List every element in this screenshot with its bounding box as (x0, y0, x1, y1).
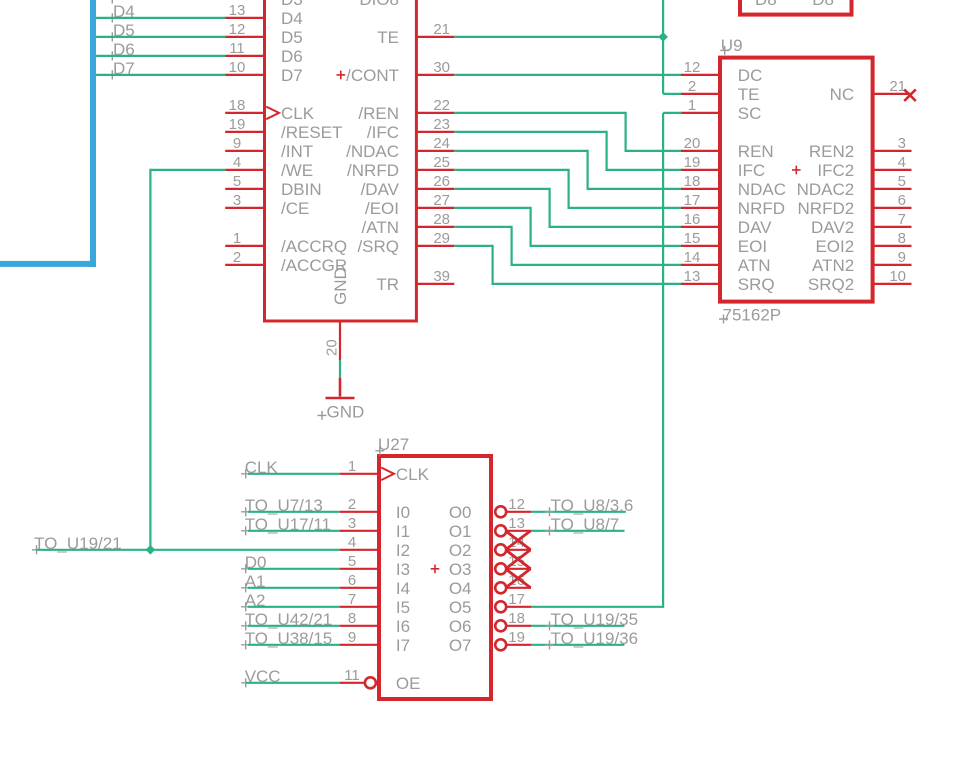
U9 pin 9 (ATN2) stub (874, 264, 912, 266)
svg-text:3: 3 (898, 135, 906, 152)
svg-text:18: 18 (508, 610, 525, 627)
U9 pin 1 (SC) stub (681, 112, 719, 114)
svg-text:OE: OE (396, 674, 421, 693)
svg-text:D6: D6 (113, 40, 135, 59)
svg-text:DAV: DAV (738, 218, 772, 237)
svg-text:I1: I1 (396, 522, 410, 541)
svg-text:TO_U8/7: TO_U8/7 (551, 515, 620, 534)
svg-text:1: 1 (233, 230, 241, 247)
U27 pin 19 (O7) inverting bubble (495, 639, 506, 650)
svg-text:IFC2: IFC2 (817, 161, 854, 180)
U27 pin 16 (O4) stub (507, 587, 532, 589)
svg-text:O6: O6 (449, 617, 472, 636)
U27 pin 7 (I5) stub (340, 606, 379, 608)
U27 pin 18 (O6) inverting bubble (495, 620, 506, 631)
wire net A1 to U27 (248, 587, 340, 589)
label origin cross for net D4 (108, 13, 117, 22)
U27 pin 17 (O5) inverting bubble (495, 601, 506, 612)
svg-text:39: 39 (433, 268, 450, 285)
svg-text:EOI2: EOI2 (815, 237, 854, 256)
svg-text:TE: TE (738, 85, 760, 104)
svg-text:14: 14 (684, 249, 701, 266)
U9 pin 18 (NDAC) stub (681, 188, 719, 190)
U27 pin 13 (O1) inverting bubble (495, 525, 506, 536)
U9 pin 13 (SRQ) stub (681, 283, 719, 285)
ground symbol SUPPLY1 GND (326, 378, 355, 398)
svg-text:/NDAC: /NDAC (346, 142, 399, 161)
wire net REN from U26 (454, 112, 625, 114)
label origin cross for CLK (241, 469, 250, 478)
svg-text:/WE: /WE (281, 161, 313, 180)
svg-text:O3: O3 (449, 560, 472, 579)
svg-text:4: 4 (348, 534, 356, 551)
svg-text:6: 6 (898, 192, 906, 209)
wire net IFC vertical jog (605, 131, 607, 171)
U27 refdes label origin cross (375, 446, 384, 455)
no-connect X mark 2 at U27 outputs (506, 550, 531, 569)
svg-text:/CE: /CE (281, 199, 309, 218)
svg-text:D7: D7 (113, 59, 135, 78)
svg-text:D0: D0 (245, 553, 267, 572)
wire net NDAC from U26 (454, 150, 587, 152)
svg-text:CLK: CLK (281, 104, 315, 123)
svg-text:9: 9 (898, 249, 906, 266)
wire net EOI from U26 (454, 207, 530, 209)
wire net EOI vertical jog (529, 207, 531, 247)
wire net TO_U17/11 to U27 (248, 530, 340, 532)
svg-text:12: 12 (229, 21, 246, 38)
svg-text:/REN: /REN (358, 104, 399, 123)
svg-text:12: 12 (508, 496, 525, 513)
clock wedge on U26 pin 18 CLK (266, 107, 279, 120)
svg-text:SC: SC (738, 104, 762, 123)
U27 pin 18 (O6) stub (507, 625, 532, 627)
svg-text:17: 17 (508, 591, 525, 608)
svg-text:2: 2 (688, 78, 696, 95)
U9 pin 16 (DAV) stub (681, 226, 719, 228)
bus B1 horizontal segment (0, 261, 96, 267)
svg-text:29: 29 (433, 230, 450, 247)
svg-text:ATN2: ATN2 (812, 256, 854, 275)
no-connect X mark 1 at U27 outputs (506, 531, 531, 550)
U26 pin 5 (DBIN) stub (225, 188, 264, 190)
svg-text:NRFD2: NRFD2 (798, 199, 855, 218)
svg-text:ATN: ATN (738, 256, 771, 275)
svg-text:22: 22 (433, 97, 450, 114)
transceiver IC U9 box (720, 58, 873, 302)
U27 pin 15 (O3) stub (507, 568, 532, 570)
U26 pin 3 (/CE) stub (225, 207, 264, 209)
svg-text:2: 2 (233, 249, 241, 266)
wire net EOI into U9 (531, 245, 682, 247)
label origin cross for TO_U19/35 (545, 621, 554, 630)
svg-text:/NRFD: /NRFD (347, 161, 399, 180)
svg-text:TO_U19/35: TO_U19/35 (551, 610, 639, 629)
svg-text:8: 8 (898, 230, 906, 247)
U27 pin 11 (OE) stub (340, 682, 364, 684)
wire net VCC to U27 OE (246, 682, 340, 684)
wire net TO_U19/35 from U27 pin 18 (531, 625, 625, 627)
svg-text:GND: GND (327, 403, 365, 422)
U27 pin 12 (O0) inverting bubble (495, 506, 506, 517)
U26 pin 10 (D7) stub (225, 74, 264, 76)
svg-text:/DAV: /DAV (361, 180, 400, 199)
svg-text:CLK: CLK (245, 458, 279, 477)
wire net IFC from U26 (454, 131, 606, 133)
svg-text:20: 20 (324, 339, 341, 356)
svg-text:28: 28 (433, 211, 450, 228)
svg-text:EOI: EOI (738, 237, 767, 256)
U9 pin 15 (EOI) stub (681, 245, 719, 247)
svg-text:D5: D5 (113, 21, 135, 40)
origin cross of U9 (792, 166, 801, 175)
svg-text:U9: U9 (721, 36, 743, 55)
U26 pin 30 (/CONT) stub (417, 74, 454, 76)
U26 pin 27 (/EOI) stub (417, 207, 454, 209)
U26 pin 25 (/NRFD) stub (417, 169, 454, 171)
U27 pin 14 (O2) inverting bubble (495, 544, 506, 555)
label origin cross for VCC (241, 678, 250, 687)
wire net NRFD into U9 (569, 207, 682, 209)
label origin cross for TO_U42/21 (241, 621, 250, 630)
svg-text:11: 11 (229, 40, 245, 57)
wire net D7 from bus to U26 (96, 74, 225, 76)
svg-text:D8: D8 (812, 0, 834, 9)
svg-text:NDAC: NDAC (738, 180, 786, 199)
svg-text:/IFC: /IFC (367, 123, 399, 142)
U27 pin 17 (O5) stub (507, 606, 532, 608)
no-connect X mark 3 at U27 outputs (506, 569, 531, 588)
U27 pin 6 (I4) stub (340, 587, 379, 589)
wire net TO_U8/3,6 from U27 pin 12 (531, 511, 626, 513)
svg-text:/ACCRQ: /ACCRQ (281, 237, 347, 256)
clipped IC box at top edge (740, 0, 852, 15)
wire net TE from U26 pin 21 (454, 36, 663, 38)
U9 pin 7 (DAV2) stub (874, 226, 912, 228)
U9 pin 6 (NRFD2) stub (874, 207, 912, 209)
wire net SC into U9 pin 1 (663, 112, 681, 114)
U9 pin 8 (EOI2) stub (874, 245, 912, 247)
svg-text:D8: D8 (755, 0, 777, 9)
svg-text:I6: I6 (396, 617, 410, 636)
svg-text:9: 9 (348, 629, 356, 646)
svg-text:11: 11 (344, 667, 360, 684)
svg-text:6: 6 (348, 572, 356, 589)
U27 pin 2 (I0) stub (340, 511, 379, 513)
wire net TO_U19/21 to U27 pin 4 (37, 549, 341, 551)
op IC U26 box (TMS9914 GPIB controller, clipped at top) (265, 0, 417, 321)
svg-text:1: 1 (688, 97, 696, 114)
U26 pin 12 (D5) stub (225, 36, 264, 38)
svg-text:TO_U38/15: TO_U38/15 (245, 629, 333, 648)
U9 pin 14 (ATN) stub (681, 264, 719, 266)
svg-text:O1: O1 (449, 522, 472, 541)
svg-text:O0: O0 (449, 503, 472, 522)
U26 pin 22 (/REN) stub (417, 112, 454, 114)
wire net D6 from bus to U26 (96, 55, 225, 57)
svg-text:26: 26 (433, 173, 450, 190)
label origin cross for TO_U7/13 (241, 507, 250, 516)
U9 pin 3 (REN2) stub (874, 150, 912, 152)
wire net D0 to U27 (248, 568, 340, 570)
wire net /CONT from U26 pin 30 to U9 pin 12 (454, 74, 681, 76)
wire net DAV into U9 (550, 226, 682, 228)
wire net ATN from U26 (454, 226, 511, 228)
svg-text:1: 1 (348, 458, 356, 475)
svg-text:/CONT: /CONT (346, 66, 399, 85)
U26 pin 2 (/ACCGR) stub (225, 264, 264, 266)
svg-text:NC: NC (830, 85, 855, 104)
svg-text:18: 18 (684, 173, 701, 190)
svg-text:17: 17 (684, 192, 701, 209)
svg-text:13: 13 (229, 2, 246, 19)
wire net TO_U38/15 to U27 (248, 644, 340, 646)
U27 pin 16 (O4) inverting bubble (495, 582, 506, 593)
label origin cross for net D5 (108, 32, 117, 41)
svg-text:NDAC2: NDAC2 (797, 180, 855, 199)
wire net SC from U27 pin 17 horizontal (531, 606, 663, 608)
svg-text:DC: DC (738, 66, 763, 85)
wire net SRQ vertical jog (492, 245, 494, 285)
svg-text:10: 10 (889, 268, 906, 285)
bus B1 vertical segment (90, 0, 96, 267)
wire net A2 to U27 (248, 606, 340, 608)
U26 pin 19 (/RESET) stub (225, 131, 264, 133)
U26 pin 23 (/IFC) stub (417, 131, 454, 133)
wire net IFC into U9 (607, 169, 682, 171)
svg-text:VCC: VCC (245, 667, 281, 686)
svg-text:D6: D6 (281, 47, 303, 66)
wire net REN vertical jog (624, 112, 626, 152)
svg-text:I0: I0 (396, 503, 410, 522)
wire net CLK to U27 (248, 473, 340, 475)
svg-text:I2: I2 (396, 541, 410, 560)
svg-text:TO_U8/3,6: TO_U8/3,6 (551, 496, 634, 515)
svg-text:I5: I5 (396, 598, 410, 617)
wire from U26 pin 20 to ground (339, 360, 341, 378)
U27 pin 3 (I1) stub (340, 530, 379, 532)
label origin cross for net D6 (108, 51, 117, 60)
svg-text:23: 23 (433, 116, 450, 133)
svg-text:TO_U7/13: TO_U7/13 (245, 496, 323, 515)
wire net NDAC vertical jog (586, 150, 588, 190)
wire net TO_U7/13 to U27 (248, 511, 340, 513)
wire net TO_U19/36 from U27 pin 19 (531, 644, 625, 646)
svg-text:TO_U17/11: TO_U17/11 (245, 515, 331, 534)
wire net TE vertical through junction (662, 0, 664, 94)
svg-text:9: 9 (233, 135, 241, 152)
wire net TO_U19/21 horizontal from U26 /WE (150, 169, 225, 171)
svg-text:DBIN: DBIN (281, 180, 322, 199)
svg-text:19: 19 (229, 116, 246, 133)
junction on net TO_U19/21 (146, 545, 156, 555)
svg-text:D4: D4 (113, 2, 135, 21)
svg-text:10: 10 (229, 59, 246, 76)
svg-text:O7: O7 (449, 636, 472, 655)
svg-text:3: 3 (348, 515, 356, 532)
svg-text:21: 21 (433, 21, 450, 38)
svg-text:15: 15 (684, 230, 701, 247)
svg-text:TO_U42/21: TO_U42/21 (245, 610, 333, 629)
svg-text:D4: D4 (281, 9, 303, 28)
U27 pin 19 (O7) stub (507, 644, 532, 646)
svg-text:5: 5 (898, 173, 906, 190)
svg-text:19: 19 (684, 154, 701, 171)
svg-text:24: 24 (433, 135, 450, 152)
label origin cross for TO_U17/11 (241, 526, 250, 535)
wire net TO_U42/21 to U27 (248, 625, 340, 627)
svg-text:/RESET: /RESET (281, 123, 342, 142)
U27 pin 11 inverting bubble (365, 677, 376, 688)
svg-text:5: 5 (233, 173, 241, 190)
U9 pin 17 (NRFD) stub (681, 207, 719, 209)
svg-text:TO_U19/21: TO_U19/21 (34, 534, 122, 553)
svg-text:13: 13 (684, 268, 701, 285)
U27 pin 14 (O2) stub (507, 549, 532, 551)
svg-text:7: 7 (898, 211, 906, 228)
svg-text:D3: D3 (281, 0, 303, 9)
U27 pin 9 (I7) stub (340, 644, 379, 646)
wire net TO_U8/7 from U27 pin 13 (531, 530, 625, 532)
svg-text:I7: I7 (396, 636, 410, 655)
svg-text:75162P: 75162P (723, 306, 782, 325)
wire net SRQ from U26 (454, 245, 492, 247)
U9 pin 5 (NDAC2) stub (874, 188, 912, 190)
svg-text:12: 12 (684, 59, 701, 76)
svg-text:16: 16 (684, 211, 701, 228)
svg-text:TE: TE (377, 28, 399, 47)
svg-text:D7: D7 (281, 66, 303, 85)
svg-text:27: 27 (433, 192, 450, 209)
svg-text:SRQ2: SRQ2 (808, 275, 854, 294)
svg-text:SRQ: SRQ (738, 275, 775, 294)
label origin cross for TO_U8/7 (545, 526, 554, 535)
svg-text:/SRQ: /SRQ (357, 237, 399, 256)
wire net D4 from bus to U26 (96, 17, 225, 19)
wire net SC vertical to U9 pin 1 (662, 113, 664, 608)
U9 pin 12 (DC) stub (681, 74, 719, 76)
svg-text:5: 5 (348, 553, 356, 570)
wire net REN into U9 (626, 150, 682, 152)
svg-text:A1: A1 (245, 572, 266, 591)
U26 pin 4 (/WE) stub (225, 169, 264, 171)
U27 pin 5 (I3) stub (340, 568, 379, 570)
svg-text:25: 25 (433, 154, 450, 171)
svg-text:8: 8 (348, 610, 356, 627)
U27 pin 15 (O3) inverting bubble (495, 563, 506, 574)
svg-text:18: 18 (229, 97, 246, 114)
label origin cross for net D3 (108, 0, 117, 4)
wire net D5 from bus to U26 (96, 36, 225, 38)
U9 value label origin cross (719, 315, 728, 324)
U26 pin 13 (D4) stub (225, 17, 264, 19)
wire net ATN into U9 (512, 264, 682, 266)
wire net DAV vertical jog (548, 188, 550, 228)
svg-text:IFC: IFC (738, 161, 765, 180)
svg-text:4: 4 (898, 154, 906, 171)
label origin cross for D0 (241, 564, 250, 573)
U26 pin 24 (/NDAC) stub (417, 150, 454, 152)
U9 pin 19 (IFC) stub (681, 169, 719, 171)
label origin cross for TO_U19/36 (545, 640, 554, 649)
U9 pin 4 (IFC2) stub (874, 169, 912, 171)
U26 pin 29 (/SRQ) stub (417, 245, 454, 247)
svg-text:U27: U27 (378, 435, 409, 454)
U26 pin 9 (/INT) stub (225, 150, 264, 152)
U26 pin 11 (D6) stub (225, 55, 264, 57)
wire net NRFD from U26 (454, 169, 568, 171)
svg-text:13: 13 (508, 515, 525, 532)
label origin cross for TO_U38/15 (241, 640, 250, 649)
U9 pin 2 (TE) stub (681, 93, 719, 95)
origin cross of U26 (337, 71, 346, 80)
svg-text:2: 2 (348, 496, 356, 513)
label origin cross for net D7 (108, 70, 117, 79)
U26 pin 26 (/DAV) stub (417, 188, 454, 190)
svg-text:O5: O5 (449, 598, 472, 617)
svg-text:NRFD: NRFD (738, 199, 785, 218)
label origin cross for TO_U19/21 (32, 545, 41, 554)
svg-text:TO_U19/36: TO_U19/36 (551, 629, 639, 648)
wire net NDAC into U9 (588, 188, 682, 190)
U9 refdes label origin cross (720, 46, 729, 55)
svg-text:D5: D5 (281, 28, 303, 47)
svg-text:3: 3 (233, 192, 241, 209)
svg-text:20: 20 (684, 135, 701, 152)
U9 pin 20 (REN) stub (681, 150, 719, 152)
svg-text:4: 4 (233, 154, 241, 171)
U9 pin 10 (SRQ2) stub (874, 283, 912, 285)
wire net SRQ into U9 (493, 283, 682, 285)
U27 pin 12 (O0) stub (507, 511, 532, 513)
svg-text:GND: GND (331, 267, 350, 305)
svg-text:CLK: CLK (396, 465, 430, 484)
wire net DAV from U26 (454, 188, 549, 190)
svg-text:O4: O4 (449, 579, 472, 598)
clock wedge on U27 pin 1 CLK (381, 468, 394, 481)
label origin cross for TO_U8/3,6 (545, 507, 554, 516)
wire net TE into U9 pin 2 (663, 93, 681, 95)
U27 pin 1 (CLK) stub (340, 473, 379, 475)
U26 pin 39 (TR) stub (417, 283, 454, 285)
register IC U27 box (379, 456, 491, 699)
svg-text:I3: I3 (396, 560, 410, 579)
svg-text:DAV2: DAV2 (811, 218, 854, 237)
svg-text:TR: TR (376, 275, 399, 294)
U26 pin 20 (GND) stub (339, 321, 341, 360)
wire net TO_U19/21 vertical (149, 169, 151, 550)
U27 pin 13 (O1) stub (507, 530, 532, 532)
svg-text:21: 21 (889, 78, 906, 95)
svg-text:REN: REN (738, 142, 774, 161)
label origin cross for A1 (241, 583, 250, 592)
U27 pin 4 (I2) stub (340, 549, 379, 551)
svg-text:/INT: /INT (281, 142, 313, 161)
svg-text:I4: I4 (396, 579, 410, 598)
U26 pin 1 (/ACCRQ) stub (225, 245, 264, 247)
svg-text:A2: A2 (245, 591, 266, 610)
origin cross of U27 (431, 565, 440, 574)
wire net ATN vertical jog (511, 226, 513, 266)
U27 pin 8 (I6) stub (340, 625, 379, 627)
svg-text:/ATN: /ATN (362, 218, 399, 237)
svg-text:7: 7 (348, 591, 356, 608)
svg-text:30: 30 (433, 59, 450, 76)
ground label origin cross (318, 411, 327, 420)
junction on net TE (658, 32, 668, 42)
U9 pin 21 (NC) stub (874, 93, 912, 95)
svg-text:REN2: REN2 (809, 142, 854, 161)
